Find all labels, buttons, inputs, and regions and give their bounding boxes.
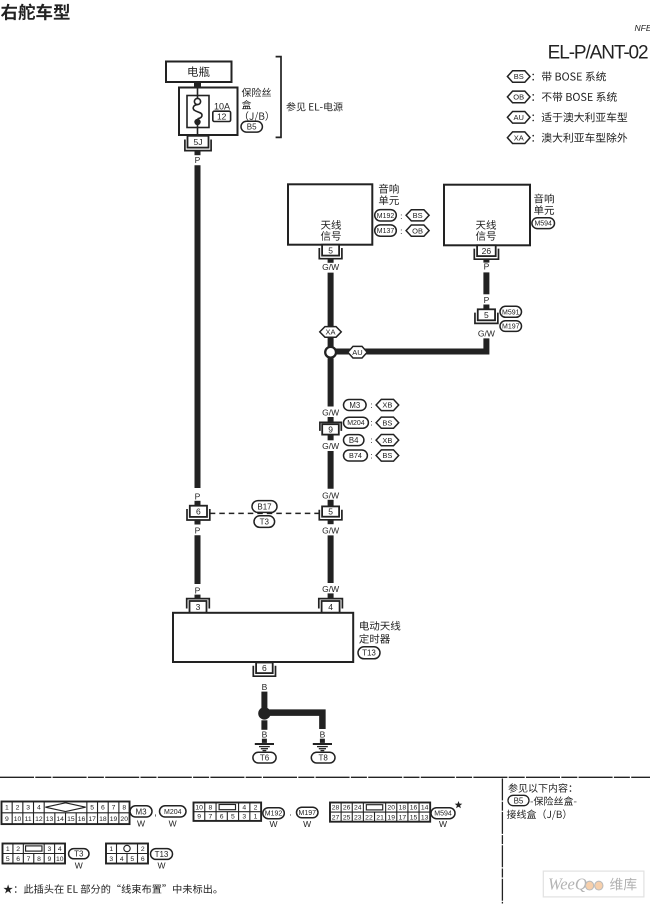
svg-text:W: W [169, 819, 177, 829]
svg-text:P: P [195, 585, 201, 595]
svg-text::: : [370, 435, 372, 445]
svg-text:B4: B4 [349, 436, 359, 445]
svg-text:1: 1 [109, 846, 113, 853]
svg-text:M197: M197 [298, 810, 316, 817]
svg-text:T3: T3 [260, 517, 270, 526]
svg-text:P: P [195, 525, 201, 535]
svg-text:3: 3 [242, 814, 246, 821]
svg-text:BS: BS [382, 418, 392, 427]
svg-text:M192: M192 [377, 213, 395, 220]
svg-text:W: W [269, 819, 277, 829]
svg-text:26: 26 [482, 246, 492, 256]
svg-text:9: 9 [47, 856, 51, 863]
svg-text:W: W [439, 819, 447, 829]
svg-text:25: 25 [343, 814, 351, 821]
svg-text:W: W [157, 860, 165, 870]
svg-text:4: 4 [58, 846, 62, 853]
svg-text:6: 6 [16, 856, 20, 863]
svg-text:2: 2 [16, 846, 20, 853]
svg-text:G/W: G/W [322, 584, 339, 594]
svg-text::: : [370, 450, 372, 460]
svg-text:5: 5 [328, 245, 333, 255]
svg-text:19: 19 [110, 816, 118, 823]
svg-text:W: W [75, 860, 83, 870]
svg-text:24: 24 [354, 805, 362, 812]
svg-text:13: 13 [421, 814, 429, 821]
svg-text:5: 5 [484, 310, 489, 320]
svg-text:B17: B17 [257, 502, 272, 511]
svg-text:AU: AU [352, 348, 362, 357]
svg-text:T6: T6 [260, 754, 270, 763]
svg-text:23: 23 [354, 814, 362, 821]
svg-text:9: 9 [5, 816, 9, 823]
svg-text::: : [370, 418, 372, 428]
svg-text:18: 18 [99, 816, 107, 823]
svg-text:M137: M137 [377, 228, 395, 235]
svg-text:B: B [262, 682, 268, 692]
svg-text:16: 16 [410, 805, 418, 812]
svg-text:5: 5 [231, 814, 235, 821]
svg-text:4: 4 [37, 805, 41, 812]
svg-text:M594: M594 [434, 811, 452, 818]
svg-text:.: . [289, 808, 292, 818]
svg-text:15: 15 [410, 814, 418, 821]
svg-text::: : [400, 211, 402, 221]
svg-text:B: B [320, 729, 326, 739]
svg-text:22: 22 [365, 814, 373, 821]
svg-text:P: P [484, 262, 490, 272]
svg-text:T13: T13 [362, 649, 376, 658]
svg-text:28: 28 [332, 805, 340, 812]
svg-text:,: , [154, 808, 157, 818]
svg-text:20: 20 [387, 805, 395, 812]
svg-text:6: 6 [141, 856, 145, 863]
svg-text:T13: T13 [155, 850, 169, 859]
svg-text:27: 27 [332, 814, 340, 821]
svg-text:9: 9 [328, 425, 333, 435]
svg-text:5: 5 [6, 856, 10, 863]
svg-text:W: W [137, 819, 145, 829]
svg-text:8: 8 [209, 805, 213, 812]
svg-text:10: 10 [195, 805, 203, 812]
svg-text:B5: B5 [247, 123, 257, 132]
svg-text:15: 15 [67, 816, 75, 823]
svg-text:10A: 10A [214, 102, 230, 112]
svg-text:B: B [262, 729, 268, 739]
svg-text:M204: M204 [164, 809, 182, 816]
svg-text:M197: M197 [502, 324, 520, 331]
svg-text:8: 8 [122, 805, 126, 812]
svg-text:14: 14 [56, 816, 64, 823]
svg-text:BS: BS [514, 72, 524, 81]
svg-text:6: 6 [220, 814, 224, 821]
svg-text:M192: M192 [265, 811, 283, 818]
svg-text:G/W: G/W [322, 441, 339, 451]
svg-text:P: P [195, 155, 201, 165]
svg-text:G/W: G/W [322, 491, 339, 501]
svg-text:M204: M204 [347, 420, 365, 427]
svg-text:G/W: G/W [322, 526, 339, 536]
svg-text:6: 6 [101, 805, 105, 812]
svg-text:W: W [303, 819, 311, 829]
svg-text:M594: M594 [534, 221, 552, 228]
svg-text:P: P [484, 295, 490, 305]
svg-text:3: 3 [47, 846, 51, 853]
svg-text:5: 5 [130, 856, 134, 863]
svg-text:18: 18 [399, 805, 407, 812]
svg-text:5J: 5J [194, 137, 203, 147]
svg-text:10: 10 [14, 816, 22, 823]
svg-text:1: 1 [5, 805, 9, 812]
svg-text:17: 17 [88, 816, 96, 823]
svg-text:9: 9 [197, 814, 201, 821]
svg-text:M591: M591 [502, 309, 520, 316]
svg-text:G/W: G/W [478, 328, 495, 338]
svg-text:G/W: G/W [322, 262, 339, 272]
svg-text:6: 6 [196, 506, 201, 516]
svg-text:WeeQ: WeeQ [548, 875, 587, 894]
svg-text:16: 16 [78, 816, 86, 823]
svg-text:13: 13 [46, 816, 54, 823]
svg-text:3: 3 [109, 856, 113, 863]
svg-text:B5: B5 [514, 796, 524, 805]
svg-text:EL-P/ANT-02: EL-P/ANT-02 [548, 43, 648, 64]
svg-text:6: 6 [262, 663, 267, 673]
svg-text:4: 4 [328, 602, 333, 612]
svg-text:T3: T3 [74, 850, 84, 859]
svg-text:AU: AU [513, 113, 523, 122]
svg-text:G/W: G/W [322, 408, 339, 418]
svg-text:OB: OB [412, 226, 423, 235]
svg-text:2: 2 [141, 846, 145, 853]
svg-text:M3: M3 [135, 807, 147, 816]
svg-text:8: 8 [37, 856, 41, 863]
svg-text:12: 12 [35, 816, 43, 823]
svg-text:4: 4 [120, 856, 124, 863]
svg-text:7: 7 [112, 805, 116, 812]
svg-text:3: 3 [196, 602, 201, 612]
svg-text:M3: M3 [349, 401, 360, 410]
svg-text:26: 26 [343, 805, 351, 812]
svg-text:XA: XA [514, 133, 524, 142]
svg-text:3: 3 [26, 805, 30, 812]
svg-text:20: 20 [120, 816, 128, 823]
svg-text::: : [370, 400, 372, 410]
svg-text:OB: OB [513, 93, 524, 102]
svg-text:2: 2 [16, 805, 20, 812]
svg-text:7: 7 [209, 814, 213, 821]
svg-text:2: 2 [254, 805, 258, 812]
svg-text:11: 11 [25, 816, 32, 823]
svg-text:12: 12 [217, 111, 227, 121]
svg-text::: : [400, 226, 402, 236]
svg-text:NFE: NFE [635, 23, 650, 33]
svg-text:T8: T8 [318, 754, 328, 763]
svg-text:7: 7 [27, 856, 31, 863]
svg-text:5: 5 [90, 805, 94, 812]
svg-text:B74: B74 [349, 451, 362, 460]
svg-text:19: 19 [387, 814, 395, 821]
svg-text:4: 4 [242, 805, 246, 812]
svg-text:P: P [195, 492, 201, 502]
svg-text:BS: BS [382, 451, 392, 460]
svg-text:1: 1 [6, 846, 10, 853]
svg-text:17: 17 [399, 814, 407, 821]
svg-text:BS: BS [413, 211, 423, 220]
svg-text:XB: XB [382, 436, 392, 445]
svg-text:21: 21 [376, 814, 384, 821]
svg-text:5: 5 [328, 507, 333, 517]
svg-text:14: 14 [421, 805, 429, 812]
svg-text:XA: XA [325, 328, 335, 337]
svg-text:10: 10 [56, 856, 64, 863]
svg-text:XB: XB [382, 401, 392, 410]
svg-text:1: 1 [254, 814, 258, 821]
